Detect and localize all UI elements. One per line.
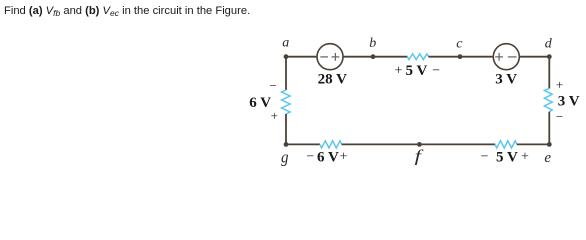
label b <box>369 36 376 51</box>
label f <box>415 147 424 166</box>
wire bottom segment g to 6V resistor <box>286 143 320 145</box>
node b <box>371 54 376 59</box>
label g <box>281 149 289 167</box>
svg-text:+: + <box>556 77 563 92</box>
svg-text:+: + <box>395 63 403 78</box>
wire top segment a to 28V source <box>286 56 317 58</box>
svg-text:e: e <box>544 150 551 166</box>
title text <box>4 5 250 18</box>
wire bottom segment 6V resistor to 5V resistor <box>342 143 496 145</box>
label d <box>545 37 553 52</box>
svg-text:c: c <box>456 37 463 52</box>
node e <box>547 142 552 147</box>
svg-text:b: b <box>369 36 376 51</box>
svg-text:+: + <box>521 150 529 165</box>
label 28 V <box>318 71 347 87</box>
label 3 V (right) <box>558 94 580 110</box>
resistor 5 V (bottom) <box>495 141 517 148</box>
svg-text:f: f <box>415 147 424 166</box>
label minus (right resistor) <box>556 109 563 124</box>
svg-text:+: + <box>340 150 348 165</box>
wire right upper (d down to resistor) <box>548 57 550 89</box>
voltage source 28 V <box>317 44 343 70</box>
svg-text:+: + <box>271 108 278 123</box>
svg-text:−: − <box>432 63 440 78</box>
label 6 V (left) <box>249 95 271 111</box>
svg-text:6 V: 6 V <box>249 95 271 111</box>
wire left upper (a down to resistor) <box>285 57 287 90</box>
resistor 6 V (left) <box>282 90 291 114</box>
label plus (right resistor) <box>556 77 563 92</box>
node d <box>547 54 552 59</box>
node c <box>458 54 463 59</box>
svg-text:−: − <box>306 150 314 165</box>
svg-text:3 V: 3 V <box>495 71 517 87</box>
node f <box>417 142 422 147</box>
wire left lower (resistor to g) <box>285 114 287 144</box>
wire top segment resistor to 3V source <box>429 56 493 58</box>
wire right lower (resistor to e) <box>548 112 550 145</box>
svg-text:Find (a) Vfb and (b) Vec in th: Find (a) Vfb and (b) Vec in the circuit … <box>4 5 250 18</box>
resistor 3 V (right) <box>544 89 552 112</box>
label - 6 V + (bottom left) <box>306 149 347 165</box>
svg-text:a: a <box>282 36 289 51</box>
label - 5 V + (bottom right) <box>481 149 529 165</box>
resistor 6 V (bottom) <box>320 141 342 148</box>
node g <box>284 142 289 147</box>
svg-text:3 V: 3 V <box>558 94 580 110</box>
svg-text:−: − <box>556 109 563 124</box>
svg-text:6 V: 6 V <box>317 149 339 165</box>
svg-text:d: d <box>545 37 553 52</box>
svg-text:−: − <box>269 78 276 93</box>
node a <box>284 54 289 59</box>
voltage source 3 V <box>493 44 519 70</box>
resistor 5 V (top) <box>407 54 429 60</box>
label + 5 V - (top resistor) <box>395 63 441 79</box>
wire top segment 28V source to resistor <box>344 56 408 58</box>
label a <box>282 36 289 51</box>
label plus (left resistor) <box>271 108 278 123</box>
svg-text:5 V: 5 V <box>405 63 427 79</box>
svg-text:g: g <box>281 149 289 167</box>
svg-text:28 V: 28 V <box>318 71 347 87</box>
label e <box>544 150 551 166</box>
svg-text:−: − <box>481 150 489 165</box>
wire top segment 3V source to d <box>519 56 549 58</box>
label minus (left resistor) <box>269 78 276 93</box>
svg-text:5 V: 5 V <box>496 149 518 165</box>
label c <box>456 37 463 52</box>
label 3 V (source) <box>495 71 517 87</box>
wire bottom segment 5V resistor to e <box>517 143 550 145</box>
